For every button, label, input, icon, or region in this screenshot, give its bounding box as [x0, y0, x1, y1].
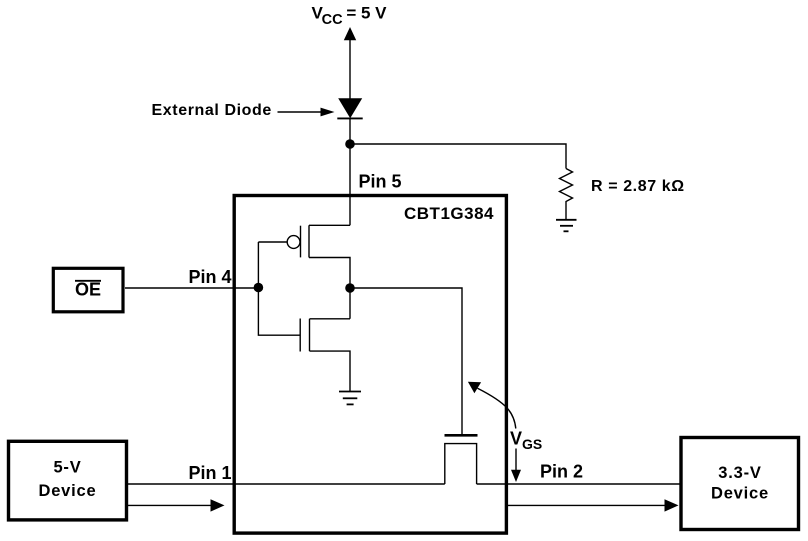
svg-text:Pin 2: Pin 2: [540, 462, 583, 482]
VGS curved arrow to gate: [468, 382, 516, 429]
node A junction dot: [345, 139, 355, 149]
gate bar: [299, 319, 301, 352]
svg-text:Pin 1: Pin 1: [189, 463, 232, 483]
svg-text:Pin 5: Pin 5: [359, 172, 402, 192]
wire node A to resistor: [350, 144, 566, 169]
transistor Q2 (NMOS): [300, 319, 350, 392]
diode D1: [337, 98, 362, 118]
channel: [309, 319, 311, 351]
wire Pin 1 signal: [127, 483, 445, 485]
svg-text:Device: Device: [711, 484, 769, 502]
transistor Q1 (PMOS): [258, 225, 350, 318]
drain lead: [310, 318, 351, 320]
wire OE to Pin 4: [125, 287, 258, 289]
svg-text:5-V: 5-V: [53, 459, 81, 477]
svg-text:Pin 4: Pin 4: [189, 267, 232, 287]
gate bar: [300, 226, 302, 258]
wire Pin 2 signal: [477, 483, 680, 485]
box 3.3-V Device: [681, 438, 799, 530]
svg-text:3.3-V: 3.3-V: [718, 464, 761, 482]
svg-text:CBT1G384: CBT1G384: [404, 204, 494, 223]
svg-text:External Diode: External Diode: [152, 102, 272, 119]
drain lead: [309, 258, 350, 319]
source lead from rail: [309, 224, 350, 226]
svg-text:Device: Device: [38, 482, 96, 500]
channel: [308, 225, 310, 257]
ground (inverter): [339, 392, 361, 405]
IC box CBT1G384: [234, 196, 506, 534]
svg-text:OE: OE: [75, 280, 101, 300]
resistor R: [560, 169, 573, 220]
box 5-V Device: [9, 441, 127, 520]
svg-text:R = 2.87 kΩ: R = 2.87 kΩ: [591, 178, 685, 195]
VGS down arrow to Pin 2: [511, 449, 521, 483]
OE input box: [53, 268, 123, 312]
node Pin4 junction dot: [254, 283, 264, 293]
wire diode to node A: [349, 118, 351, 225]
wire node B to pass gate: [350, 288, 462, 434]
arrow IC to 3.3V device: [506, 499, 679, 511]
VCC arrow (up): [344, 27, 356, 100]
gate wire to left rail: [258, 241, 287, 243]
arrow to diode: [278, 108, 335, 117]
gate bubble: [287, 236, 300, 249]
arrow 5V device to IC: [127, 499, 225, 511]
node B junction dot (inverter output): [345, 283, 355, 293]
left gate rail: [258, 242, 300, 335]
ground (resistor): [556, 220, 577, 232]
source lead to ground: [310, 351, 351, 391]
transistor Q3 channel hat: [445, 444, 477, 484]
transistor Q3 (pass NMOS) gate bar: [445, 434, 478, 437]
